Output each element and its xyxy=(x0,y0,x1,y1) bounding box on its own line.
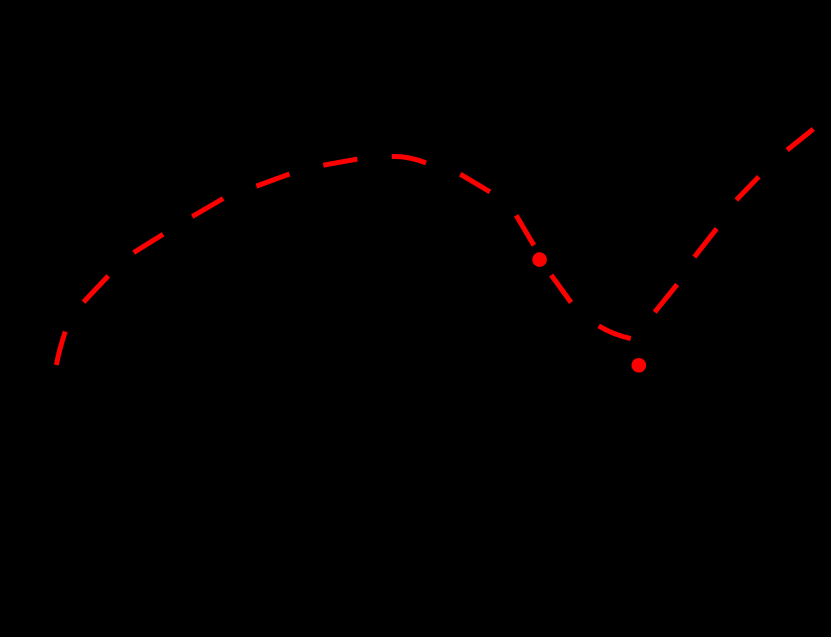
curve dash 1 xyxy=(56,332,65,365)
curve dash 11 (dip bottom) xyxy=(599,326,631,339)
curve dash 8 xyxy=(460,174,490,192)
marker point 1 (on curve) xyxy=(532,252,547,267)
curve dash 5 xyxy=(256,174,289,186)
curve dash 10 xyxy=(551,275,571,303)
curve dash 13 xyxy=(694,229,716,258)
curve dash 7 (peak) xyxy=(392,156,426,163)
marker point 2 (below dip) xyxy=(632,358,647,373)
curve dash 3 xyxy=(134,234,164,252)
curve dash 15 xyxy=(787,129,813,150)
curve dash 9 xyxy=(516,215,534,245)
curve dash 12 xyxy=(655,285,677,313)
curve dash 6 xyxy=(323,159,357,165)
curve dash 14 xyxy=(736,177,759,200)
curve dash 2 xyxy=(84,276,109,302)
curve dash 4 xyxy=(192,199,223,217)
